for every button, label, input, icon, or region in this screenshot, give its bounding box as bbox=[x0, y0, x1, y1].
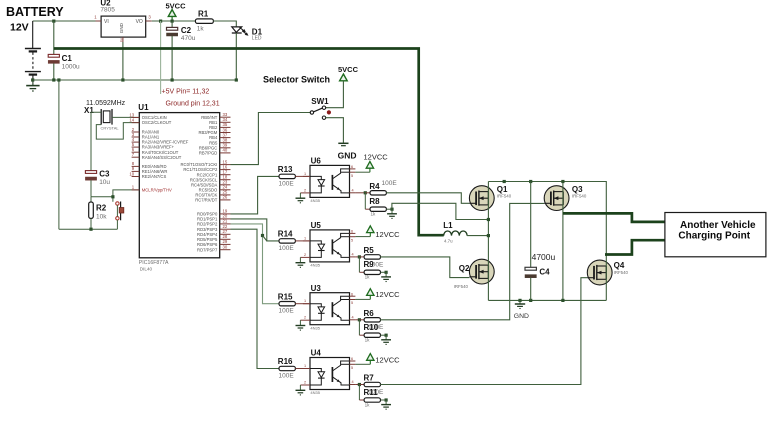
svg-text:RE2/AN7/CS: RE2/AN7/CS bbox=[142, 174, 167, 179]
node C2 junction bbox=[171, 20, 174, 23]
resistor R2 bbox=[89, 197, 94, 229]
svg-text:R10: R10 bbox=[364, 323, 379, 332]
svg-text:4.7u: 4.7u bbox=[444, 239, 453, 244]
svg-text:PIC16F877A: PIC16F877A bbox=[139, 260, 169, 266]
svg-text:1000u: 1000u bbox=[62, 64, 80, 71]
pin 2 RA0/AN0 bbox=[132, 127, 160, 135]
svg-text:6: 6 bbox=[351, 165, 353, 169]
pin 40 RB7/PGD bbox=[199, 148, 231, 156]
svg-text:Q1: Q1 bbox=[497, 185, 508, 194]
node C2 rail junction bbox=[171, 78, 174, 81]
resistor R10 bbox=[364, 333, 380, 337]
node R9 ground junction bbox=[385, 271, 388, 274]
wire R15 to U3 pin1 bbox=[295, 303, 310, 305]
power 5VCC arrow at U2 bbox=[166, 1, 187, 21]
wire R1 to D1 bbox=[213, 21, 236, 27]
svg-text:1k: 1k bbox=[197, 25, 205, 32]
resistor R11 bbox=[364, 398, 380, 402]
microcontroller U1 PIC16F877A body bbox=[139, 113, 219, 258]
pushbutton reset bbox=[116, 202, 124, 230]
pin 5 bbox=[350, 237, 356, 243]
pin 38 RB5 bbox=[209, 138, 230, 146]
svg-text:4N35: 4N35 bbox=[310, 390, 320, 395]
resistor R5 bbox=[359, 256, 364, 258]
svg-text:R11: R11 bbox=[364, 388, 379, 397]
svg-text:5: 5 bbox=[351, 366, 353, 370]
wire branch diagonal to R14 net bbox=[263, 236, 267, 241]
svg-text:10: 10 bbox=[129, 171, 134, 176]
pin 4 bbox=[350, 380, 356, 385]
pin 4 bbox=[350, 188, 356, 193]
svg-text:RD6/PSP6: RD6/PSP6 bbox=[197, 242, 218, 247]
svg-text:4N35: 4N35 bbox=[310, 198, 320, 203]
svg-text:RC7/RX/DT: RC7/RX/DT bbox=[195, 198, 218, 203]
svg-text:R14: R14 bbox=[278, 230, 293, 239]
pin 2 bbox=[300, 381, 310, 386]
pin 20 RD1/PSP1 bbox=[197, 214, 230, 222]
svg-text:6: 6 bbox=[351, 292, 353, 296]
svg-text:4N35: 4N35 bbox=[310, 325, 320, 330]
pin 26 RC7/RX/DT bbox=[195, 195, 230, 203]
svg-text:4: 4 bbox=[352, 380, 354, 384]
svg-text:1: 1 bbox=[304, 364, 306, 368]
pin 39 RB6/PGC bbox=[199, 143, 231, 151]
node Q1 source junction bbox=[487, 218, 490, 221]
svg-text:OSC2/CLKOUT: OSC2/CLKOUT bbox=[142, 120, 172, 125]
pin 35 RB2 bbox=[209, 122, 230, 130]
regulator U2 7805 bbox=[96, 16, 152, 42]
node L1 midpoint junction bbox=[487, 234, 490, 237]
pin 9 RE1/AN6/WR bbox=[132, 166, 168, 174]
svg-text:29: 29 bbox=[223, 239, 228, 244]
ground at SW1 bbox=[338, 143, 348, 145]
wire MCLR node horizontal bbox=[91, 196, 113, 198]
svg-text:1: 1 bbox=[304, 172, 306, 176]
node C1 bottom junction bbox=[52, 78, 55, 81]
pin 3 RA1/AN1 bbox=[132, 132, 160, 140]
pin 7 RA5/AN4/SS/C2OUT bbox=[132, 152, 182, 160]
pin 30 RD7/PSP7 bbox=[197, 245, 230, 253]
svg-text:R16: R16 bbox=[278, 357, 293, 366]
resistor R8 bbox=[370, 207, 386, 211]
wire SW1 lower throw to GND bbox=[326, 118, 344, 143]
resistor R4 bbox=[365, 192, 370, 194]
pin 16 RC1/T1OSI/CCP2 bbox=[183, 164, 230, 172]
svg-text:IRF540: IRF540 bbox=[454, 284, 469, 289]
power 5VCC arrow at SW1 bbox=[340, 74, 348, 81]
mosfet Q1 bbox=[469, 186, 494, 211]
node battery+/C1 junction bbox=[52, 20, 55, 23]
node D1 rail junction bbox=[235, 78, 238, 81]
svg-text:L1: L1 bbox=[443, 221, 453, 230]
svg-text:CRYSTAL: CRYSTAL bbox=[101, 126, 120, 131]
svg-text:VO: VO bbox=[136, 19, 143, 25]
wire to R10 bbox=[358, 320, 360, 335]
optocoupler U3 bbox=[310, 293, 350, 325]
wire battery top to U2 VI bbox=[33, 20, 96, 22]
mosfet Q2 bbox=[469, 259, 494, 284]
ground at U3 pin2 bbox=[296, 320, 306, 330]
node U2 pin2 rail junction bbox=[121, 78, 124, 81]
pin 24 RC5/SDO bbox=[199, 185, 231, 193]
svg-text:RD7/PSP7: RD7/PSP7 bbox=[197, 247, 218, 252]
ground at R9 bbox=[381, 272, 391, 281]
power 12VCC arrow at U4 bbox=[367, 354, 374, 361]
wire bottom ground rail bbox=[33, 79, 236, 81]
svg-text:IRF540: IRF540 bbox=[614, 270, 629, 275]
resistor R15 bbox=[279, 302, 295, 306]
svg-text:6: 6 bbox=[351, 230, 353, 234]
pin 1 MCLR/Vpp/THV bbox=[132, 185, 172, 193]
pin 19 RD0/PSP0 bbox=[197, 209, 230, 217]
svg-text:4: 4 bbox=[352, 188, 354, 192]
svg-text:2: 2 bbox=[304, 188, 306, 192]
svg-text:LED: LED bbox=[252, 35, 262, 41]
pin 27 RD4/PSP4 bbox=[197, 229, 230, 237]
pin 5 bbox=[350, 172, 356, 178]
wire reset bottom rail bbox=[59, 228, 118, 230]
wire crystal right plate to OSC1 pin13 bbox=[112, 116, 139, 118]
node R8 ground junction bbox=[390, 208, 393, 211]
svg-text:Q2: Q2 bbox=[459, 264, 470, 273]
ground at R11 bbox=[381, 400, 391, 409]
svg-text:C1: C1 bbox=[62, 54, 73, 63]
svg-text:MCLR/Vpp/THV: MCLR/Vpp/THV bbox=[142, 188, 172, 193]
resistor R13 bbox=[279, 174, 295, 178]
svg-text:12VCC: 12VCC bbox=[364, 152, 389, 161]
wire R11 to ground bbox=[381, 399, 387, 401]
pin 36 RB3/PGM bbox=[198, 127, 230, 135]
pin 1 bbox=[303, 236, 310, 241]
svg-text:U6: U6 bbox=[311, 157, 322, 166]
svg-text:R7: R7 bbox=[364, 374, 375, 383]
optocoupler U6 bbox=[310, 165, 350, 197]
svg-text:GND: GND bbox=[119, 22, 124, 33]
svg-text:26: 26 bbox=[223, 195, 228, 200]
pin 2 bbox=[300, 188, 310, 193]
node MCLR junction bbox=[111, 195, 114, 198]
pin 6 bbox=[350, 165, 356, 169]
pin 14 OSC2/CLKOUT bbox=[129, 117, 171, 125]
box Another Vehicle Charging Point bbox=[665, 213, 766, 257]
svg-text:R15: R15 bbox=[278, 292, 293, 301]
wire R14 to U5 pin1 bbox=[295, 240, 310, 242]
svg-text:100E: 100E bbox=[279, 308, 295, 315]
wire R6 to Q3 gate bbox=[380, 203, 544, 319]
LED D1 bbox=[232, 27, 249, 80]
svg-text:12V: 12V bbox=[10, 22, 29, 34]
ground at R8 bbox=[387, 209, 397, 218]
svg-text:5VCC: 5VCC bbox=[166, 1, 187, 10]
svg-text:1k: 1k bbox=[365, 338, 371, 343]
svg-text:IRF540: IRF540 bbox=[497, 194, 512, 199]
pin 10 RE2/AN7/CS bbox=[129, 171, 166, 179]
svg-text:1k: 1k bbox=[365, 402, 371, 407]
wire thick output- bbox=[605, 240, 665, 254]
node battery-/ground junction bbox=[31, 78, 34, 81]
svg-text:1k: 1k bbox=[365, 275, 371, 280]
optocoupler U4 bbox=[310, 358, 350, 390]
node R2 bottom junction bbox=[89, 228, 92, 231]
node emitter junction U3 bbox=[358, 318, 361, 321]
svg-text:U4: U4 bbox=[311, 349, 322, 358]
wire MCLR pin1 to button bbox=[113, 190, 139, 202]
wire to R11 bbox=[358, 385, 360, 401]
node RD2 branch junction bbox=[261, 234, 264, 237]
wire Q1/Q2 branch vertical bbox=[487, 182, 489, 301]
ground at U6 pin2 bbox=[296, 193, 306, 203]
svg-text:R13: R13 bbox=[278, 165, 293, 174]
capacitor C2 bbox=[167, 21, 178, 80]
wire R4 to Q1 gate bbox=[386, 193, 469, 204]
pin 33 RB0/INT bbox=[201, 112, 230, 120]
node 5V tap junction bbox=[159, 20, 162, 23]
wire R8 node to Q1 source bbox=[392, 203, 489, 219]
svg-text:5: 5 bbox=[351, 238, 353, 242]
svg-text:4N35: 4N35 bbox=[310, 263, 320, 268]
svg-text:12VCC: 12VCC bbox=[375, 356, 400, 365]
wire RD0 to R13 bbox=[231, 176, 280, 214]
resistor R6 bbox=[359, 319, 364, 321]
svg-text:2: 2 bbox=[304, 316, 306, 320]
svg-text:R9: R9 bbox=[364, 260, 375, 269]
switch SW1 bbox=[310, 106, 326, 119]
mosfet Q4 bbox=[587, 260, 612, 285]
ground at R10 bbox=[381, 335, 391, 344]
switch SW1 marker bbox=[327, 110, 331, 114]
pin 4 bbox=[350, 315, 356, 320]
wire Q3 branch vertical bbox=[562, 182, 564, 301]
pin 5 bbox=[350, 300, 356, 306]
wire R5 to Q2 gate bbox=[380, 257, 469, 278]
capacitor C3 bbox=[85, 171, 96, 197]
pin 37 RB4 bbox=[209, 132, 230, 140]
svg-text:R5: R5 bbox=[364, 246, 375, 255]
wire U4 collector to 12VCC bbox=[355, 363, 370, 365]
pin 13 OSC1/CLKIN bbox=[129, 112, 166, 120]
svg-text:Another Vehicle: Another Vehicle bbox=[680, 220, 756, 231]
pin 1 bbox=[303, 172, 310, 177]
wire R10 to ground bbox=[381, 334, 387, 336]
wire U6 emitter to R4 bbox=[355, 192, 365, 194]
optocoupler U5 bbox=[310, 230, 350, 262]
ground under battery bbox=[26, 80, 39, 91]
svg-text:100E: 100E bbox=[279, 180, 295, 187]
wire RD2 to R15 bbox=[231, 224, 280, 304]
svg-text:R6: R6 bbox=[364, 309, 375, 318]
wire thick output+ bbox=[563, 213, 665, 222]
svg-text:RA5/AN4/SS/C2OUT: RA5/AN4/SS/C2OUT bbox=[142, 155, 182, 160]
pin 34 RB1 bbox=[209, 117, 230, 125]
pin 23 RC4/SDI/SDA bbox=[191, 180, 230, 188]
svg-text:10u: 10u bbox=[99, 179, 110, 186]
wire R16 to U4 pin1 bbox=[295, 368, 310, 370]
pin 5 bbox=[350, 364, 356, 370]
wire OSC2 pin14 loop to crystal left plate bbox=[96, 123, 139, 140]
node R10 ground junction bbox=[385, 334, 388, 337]
pin 18 RC3/SCK/SCL bbox=[190, 175, 231, 183]
power 12VCC arrow at U3 bbox=[367, 289, 374, 296]
svg-text:21: 21 bbox=[223, 219, 228, 224]
svg-text:5VCC: 5VCC bbox=[338, 65, 359, 74]
svg-text:R8: R8 bbox=[369, 197, 380, 206]
battery BAT1 bbox=[25, 21, 41, 80]
pin 2 bbox=[300, 253, 310, 258]
wire R13 to U6 pin1 bbox=[295, 175, 310, 177]
node emitter junction U6 bbox=[364, 191, 367, 194]
resistor R9 bbox=[364, 270, 380, 274]
power 12VCC arrow at U5 bbox=[367, 226, 374, 233]
svg-text:Selector Switch: Selector Switch bbox=[263, 75, 330, 85]
svg-text:RD2/PSP2: RD2/PSP2 bbox=[197, 222, 218, 227]
wire Q4 drain/source stubs bbox=[605, 255, 607, 301]
svg-text:C3: C3 bbox=[99, 169, 110, 178]
svg-text:10k: 10k bbox=[96, 213, 107, 220]
wire R9 to ground bbox=[381, 271, 387, 273]
pin 28 RD5/PSP5 bbox=[197, 234, 230, 242]
svg-text:GND: GND bbox=[338, 151, 357, 161]
pin 6 RA4/T0CKI/C1OUT bbox=[132, 147, 179, 155]
wire U2 pin2 to ground rail bbox=[122, 42, 124, 80]
svg-text:1: 1 bbox=[304, 236, 306, 240]
svg-text:12VCC: 12VCC bbox=[375, 230, 400, 239]
pin 15 RC0/T1OSO/T1CKI bbox=[181, 159, 231, 167]
svg-text:4: 4 bbox=[352, 315, 354, 319]
wire U3 emitter to R6 bbox=[355, 319, 359, 321]
wire to R9 bbox=[358, 257, 360, 272]
capacitor C1 bbox=[48, 21, 59, 80]
svg-text:30: 30 bbox=[223, 245, 228, 250]
svg-text:RB7/PGD: RB7/PGD bbox=[199, 151, 217, 156]
svg-text:100E: 100E bbox=[279, 245, 295, 252]
svg-text:U1: U1 bbox=[138, 103, 149, 112]
wire bottom rail bbox=[488, 299, 606, 301]
svg-text:Q3: Q3 bbox=[572, 185, 583, 194]
pin 17 RC2/CCP1 bbox=[197, 170, 231, 178]
svg-text:GND: GND bbox=[514, 313, 529, 320]
svg-text:470u: 470u bbox=[181, 35, 196, 42]
svg-text:12VCC: 12VCC bbox=[375, 290, 400, 299]
wire R7 to Q4 gate bbox=[380, 278, 587, 385]
pin 6 bbox=[350, 292, 356, 296]
mosfet Q3 bbox=[544, 186, 569, 211]
svg-text:5: 5 bbox=[351, 301, 353, 305]
wire L1 to bridge midpoint bbox=[467, 235, 488, 237]
pin 1 bbox=[303, 364, 310, 369]
capacitor C4 bbox=[525, 182, 536, 301]
wire +5V feed down to PIC note bbox=[160, 21, 162, 94]
pin 2 bbox=[300, 316, 310, 321]
svg-text:100E: 100E bbox=[279, 372, 295, 379]
resistor R7 bbox=[359, 384, 364, 386]
svg-text:C4: C4 bbox=[539, 267, 550, 276]
wire U5 collector to 12VCC bbox=[355, 236, 370, 238]
pin 6 bbox=[350, 357, 356, 361]
svg-text:100E: 100E bbox=[382, 180, 398, 187]
pin 29 RD6/PSP6 bbox=[197, 239, 230, 247]
svg-text:R2: R2 bbox=[96, 204, 107, 213]
pin 4 RA2/AN2/VREF-/CVREF bbox=[132, 137, 189, 145]
pin 25 RC6/TX/CK bbox=[195, 190, 230, 198]
pin 6 bbox=[350, 230, 356, 234]
svg-text:X1: X1 bbox=[84, 106, 94, 115]
svg-text:14: 14 bbox=[129, 117, 134, 122]
node top rail junctions bbox=[503, 180, 506, 183]
svg-text:U5: U5 bbox=[311, 221, 322, 230]
svg-text:40: 40 bbox=[223, 148, 228, 153]
svg-text:4: 4 bbox=[352, 252, 354, 256]
resistor R16 bbox=[279, 366, 295, 370]
inductor L1 bbox=[444, 231, 467, 236]
node bottom rail junctions bbox=[518, 299, 521, 302]
svg-text:BATTERY: BATTERY bbox=[6, 5, 64, 19]
svg-text:R1: R1 bbox=[198, 9, 209, 18]
svg-text:+5V Pin= 11,32: +5V Pin= 11,32 bbox=[162, 89, 210, 96]
resistor R1 bbox=[195, 19, 213, 24]
ground at bridge bbox=[515, 300, 525, 308]
svg-text:Ground pin 12,31: Ground pin 12,31 bbox=[166, 101, 220, 108]
svg-text:2: 2 bbox=[304, 253, 306, 257]
wire U2 VO to R1 bbox=[152, 20, 196, 22]
svg-text:DIL40: DIL40 bbox=[140, 266, 153, 271]
svg-text:R4: R4 bbox=[369, 182, 380, 191]
wire to R8 bbox=[364, 193, 366, 209]
ground at U5 pin2 bbox=[296, 257, 306, 267]
node emitter junction U4 bbox=[358, 383, 361, 386]
wire crystal left plate top to C3 bbox=[91, 112, 101, 170]
wire thick 12V bus bbox=[54, 49, 444, 236]
svg-text:7805: 7805 bbox=[100, 6, 115, 13]
svg-text:1: 1 bbox=[304, 299, 306, 303]
svg-text:Charging Point: Charging Point bbox=[678, 231, 750, 242]
wire RD1 to R14 bbox=[231, 219, 280, 241]
pin 5 RA3/AN3/VREF+ bbox=[132, 142, 175, 150]
wire U6 collector to 12VCC bbox=[355, 171, 370, 173]
node emitter junction U5 bbox=[358, 255, 361, 258]
wire R8 to ground bbox=[386, 208, 392, 210]
ground at U4 pin2 bbox=[296, 385, 306, 395]
wire RD3 to R16 bbox=[231, 229, 280, 368]
svg-text:6: 6 bbox=[351, 357, 353, 361]
svg-text:1k: 1k bbox=[371, 212, 377, 217]
pin 21 RD2/PSP2 bbox=[197, 219, 230, 227]
crystal X1 bbox=[101, 109, 112, 125]
wire left ground vertical bbox=[58, 80, 60, 229]
pin 1 bbox=[303, 299, 310, 304]
node R11 ground junction bbox=[385, 398, 388, 401]
svg-text:IRF540: IRF540 bbox=[572, 194, 587, 199]
node left ground junction bbox=[57, 78, 60, 81]
wire U4 emitter to R7 bbox=[355, 384, 359, 386]
wire RC0 to SW1 bbox=[231, 113, 311, 165]
resistor R14 bbox=[279, 239, 295, 243]
pin 4 bbox=[350, 252, 356, 257]
svg-text:U3: U3 bbox=[311, 284, 322, 293]
svg-text:4700u: 4700u bbox=[532, 252, 556, 262]
svg-text:2: 2 bbox=[304, 381, 306, 385]
wire U3 collector to 12VCC bbox=[355, 298, 370, 300]
wire U5 emitter to R5 bbox=[355, 256, 359, 258]
svg-text:5: 5 bbox=[351, 174, 353, 178]
wire top rail bbox=[488, 182, 606, 255]
svg-text:C2: C2 bbox=[181, 26, 192, 35]
pin 22 RD3/PSP3 bbox=[197, 224, 230, 232]
svg-text:VI: VI bbox=[104, 19, 109, 25]
pin 8 RE0/AN5/RD bbox=[132, 161, 167, 169]
power 12VCC arrow at U6 bbox=[366, 162, 373, 169]
wire SW1 upper throw to 5VCC bbox=[326, 81, 344, 108]
svg-text:SW1: SW1 bbox=[311, 97, 329, 106]
